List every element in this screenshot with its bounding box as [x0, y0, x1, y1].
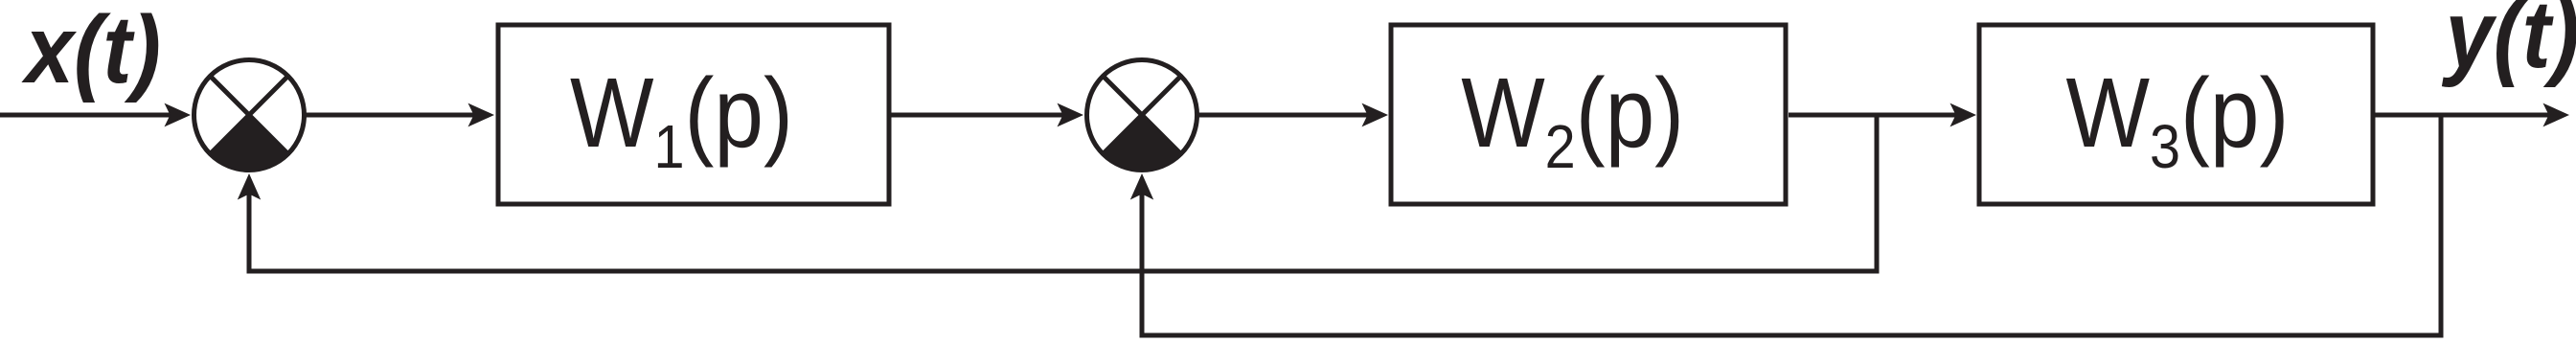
- wire: block W2 to block W3: [1789, 113, 1961, 118]
- svg-text:y(t): y(t): [2442, 0, 2576, 88]
- summing junction 1: [194, 60, 305, 171]
- wire: input line into summer 1: [0, 113, 175, 118]
- summing junction 2: [1087, 60, 1197, 171]
- arrowhead into block W3: [1950, 103, 1977, 127]
- wire: summer 2 to block W2: [1197, 113, 1373, 118]
- block W3: [1979, 25, 2373, 204]
- arrowhead feedback 2 into summer 2 bottom: [1130, 173, 1153, 200]
- arrowhead into block W1: [468, 103, 495, 127]
- svg-text:x(t): x(t): [21, 0, 161, 103]
- wire: feedback 1 from node between W2 and W3 down-left-up into summer 1: [249, 115, 1877, 271]
- arrowhead into summer 1 (from left): [165, 103, 192, 127]
- wire: summer 1 to block W1: [305, 113, 479, 118]
- block W1: [498, 25, 889, 204]
- arrowhead into block W2: [1362, 103, 1389, 127]
- wire: feedback 2 from output node down-left-up into summer 2: [1142, 115, 2441, 335]
- wire: block W1 to summer 2: [891, 113, 1068, 118]
- arrowhead feedback 1 into summer 1 bottom: [238, 173, 261, 200]
- arrowhead into summer 2 (from left): [1058, 103, 1084, 127]
- block W2: [1391, 25, 1786, 204]
- wire: block W3 to output: [2375, 113, 2554, 118]
- arrowhead output y(t): [2543, 103, 2570, 127]
